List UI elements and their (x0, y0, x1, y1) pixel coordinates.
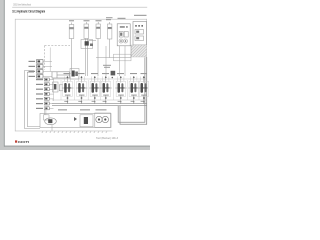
wire manifold down a (119, 58, 121, 76)
wire from C3 down (97, 39, 99, 77)
tank return line outer (120, 57, 147, 124)
wire from C4 down (109, 39, 111, 58)
check valve arrow (74, 117, 77, 121)
left return wire A (25, 71, 41, 129)
port label row 1 (29, 60, 53, 64)
relief valve cluster V1 (81, 40, 96, 49)
valve section 2 (76, 73, 88, 104)
main pump P1 (44, 115, 57, 131)
port label row 11 (36, 107, 54, 110)
diagram frame right (145, 19, 148, 125)
svg-text:Tool (Bucket) 10b-3: Tool (Bucket) 10b-3 (96, 137, 119, 140)
port label row 10 (36, 102, 54, 105)
svg-text:CK2510 Series Workshop Manual: CK2510 Series Workshop Manual (13, 4, 31, 7)
power unit inlet wires (43, 107, 45, 116)
diagram frame bottom (15, 130, 113, 133)
priority valve cluster (111, 71, 116, 76)
diagram frame left (14, 19, 17, 131)
header rule (12, 6, 147, 9)
valve section 5 (115, 73, 127, 104)
label above priority valve (103, 65, 111, 66)
valve section 4 (100, 73, 112, 104)
engine E1 (80, 115, 93, 127)
bucket cylinder C1 (69, 23, 74, 39)
port label row 3 (29, 70, 53, 74)
dashed pilot line vertical (44, 46, 46, 70)
label above cylinder C3 (96, 20, 102, 21)
diagram frame top (15, 18, 147, 21)
blade cylinder C4 (108, 22, 112, 39)
tank hatch ticks on frame bottom (42, 131, 107, 133)
port label row 6 (36, 83, 54, 86)
tank return line inner (118, 58, 145, 123)
footer logo mark (15, 140, 17, 142)
tank strainer hatch area (131, 45, 147, 57)
svg-text:10.1 Hydraulic Circuit Diagram: 10.1 Hydraulic Circuit Diagram (12, 10, 45, 14)
left return wire B (27, 72, 40, 126)
motor group M1 (95, 113, 111, 127)
gear pump box U5 (117, 24, 130, 46)
port tick labels above return bus (64, 100, 144, 103)
tank internals (135, 30, 144, 41)
label above pump group (58, 109, 67, 110)
dashed pilot line horizontal (45, 45, 71, 47)
return bus line 1 (52, 103, 147, 105)
wire from C1 down (70, 39, 72, 71)
page bottom edge line (4, 146, 150, 147)
svg-text:KIOTI: KIOTI (18, 140, 29, 144)
wire vertical mid-left (49, 48, 51, 72)
wires from C2 down (85, 39, 87, 77)
valve bank section dividers (61, 80, 139, 100)
oil tank box T1 (133, 22, 147, 46)
scan background left band (0, 0, 4, 150)
port label row 4 (29, 75, 53, 79)
label above cylinder C4 (two lines) (106, 17, 113, 18)
wire tank drop (130, 45, 132, 58)
label above cylinder C2 (84, 20, 90, 21)
tank top fittings (135, 25, 137, 27)
manifold block under gear pump (114, 54, 132, 61)
valve section 6 (128, 73, 140, 104)
port label row 2 (29, 65, 53, 69)
label above motor group (96, 109, 107, 110)
label above cylinder C1 (69, 20, 74, 21)
valve bank left end plate (53, 82, 59, 92)
gear pump internals (119, 32, 128, 44)
page left edge line (4, 0, 5, 150)
swing cylinder C3 (96, 22, 100, 39)
page background (0, 0, 150, 150)
gear pump port dots (120, 26, 125, 28)
valve bank top rail (52, 78, 147, 80)
valve section 3 (89, 73, 101, 104)
valve section 7 (138, 73, 148, 104)
horizontal cylinder C5 (52, 72, 70, 78)
return bus line 2 (52, 105, 147, 107)
port label row 9 (36, 97, 54, 100)
boom cylinder C2 (84, 22, 89, 39)
port label row 7 (36, 88, 54, 91)
label TANK LID above (134, 15, 147, 16)
valve section 1 (62, 73, 74, 104)
wire pump to manifold a (119, 46, 121, 58)
port label row 8 (36, 92, 54, 95)
port label row 5 (36, 78, 54, 81)
mid manifold line (96, 57, 131, 59)
wire manifold down b (124, 58, 126, 76)
scan background bottom band (0, 147, 150, 150)
valve cluster on C5 rod V2 (70, 69, 79, 80)
wire pump to manifold b (124, 46, 126, 58)
valve bank bottom rail (52, 99, 147, 101)
label GEAR PUMP above (118, 18, 126, 19)
wire manifold down c (105, 46, 107, 76)
label above engine group (80, 109, 90, 110)
power unit box (40, 114, 111, 128)
